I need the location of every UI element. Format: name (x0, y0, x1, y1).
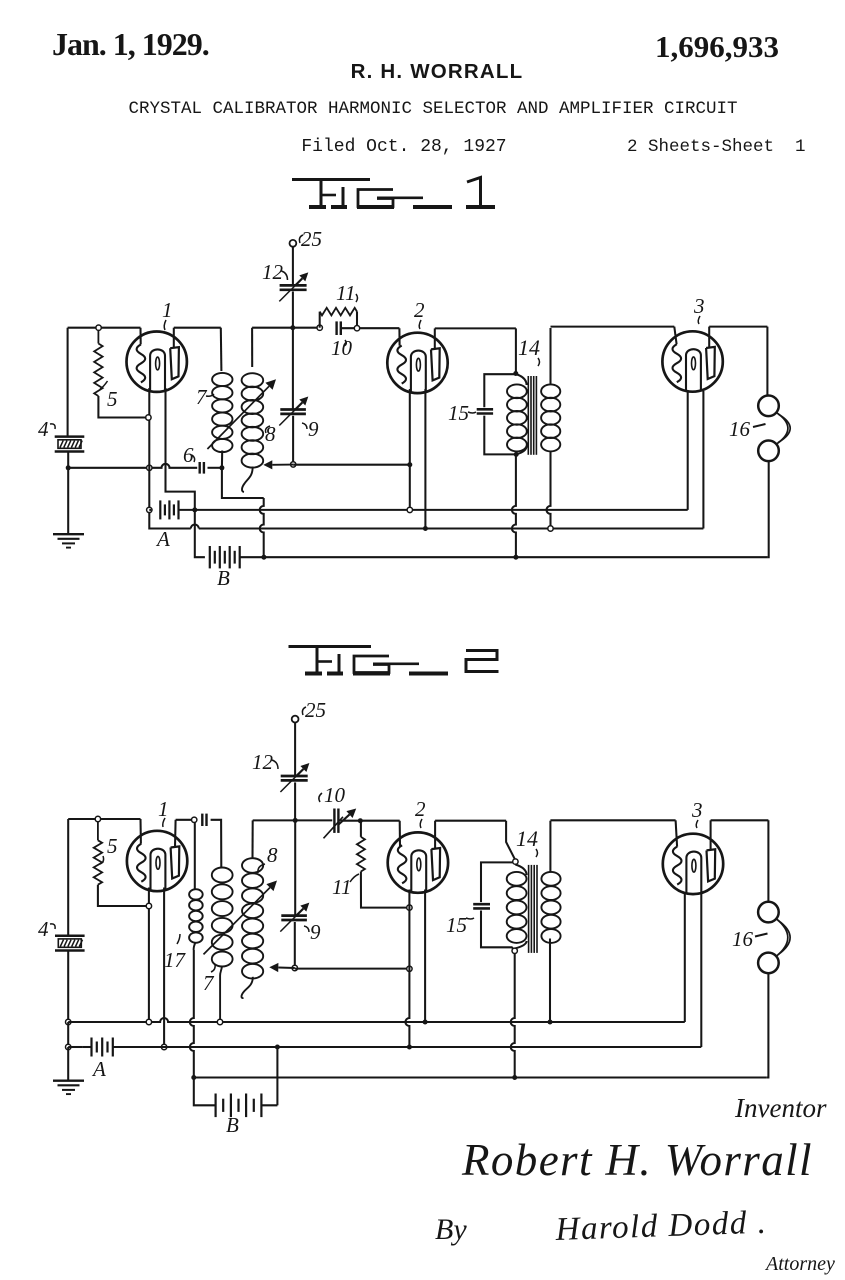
wire: top bus segment F Fig.1 (709, 326, 767, 328)
transformer 14 core Fig.1 (528, 376, 536, 455)
wire: grid lead tube 2 Fig.1 (398, 328, 400, 345)
label 14 Fig.1 (518, 335, 540, 366)
wire: right rail to phones Fig.2 (767, 820, 769, 901)
junction (open) battery A left Fig.1 (147, 507, 152, 512)
wire: tube 2 filament left leg Fig.1 (407, 389, 412, 507)
junction dot primary-drop / railR Fig.2 (512, 1075, 517, 1080)
wire: tube 1 filament left leg Fig.2 (148, 888, 150, 1020)
junction dot coil17-battB / railR Fig.2 (191, 1075, 196, 1080)
wire: battery A left lead Fig.2 (68, 1046, 91, 1048)
wire: phones to B+ rail Fig.1 (767, 461, 768, 557)
svg-text:25: 25 (305, 698, 326, 722)
svg-text:By: By (435, 1213, 467, 1246)
crystal detector 4 Fig.2 (55, 936, 85, 1022)
svg-text:5: 5 (107, 834, 118, 858)
label 4 Fig.1 (38, 417, 55, 441)
label 14 Fig.2 (516, 826, 538, 857)
label 3 Fig.1 (693, 294, 705, 324)
svg-text:1: 1 (162, 298, 173, 322)
wire: top bus segment E Fig.1 (551, 326, 675, 328)
tuning arrow through coil 7 Fig.2 (204, 881, 278, 955)
crystal detector 4 Fig.1 (55, 437, 85, 468)
junction (open) tube2 left leg / rail1 Fig.1 (407, 507, 412, 512)
variable capacitor 12 Fig.2 (280, 763, 309, 820)
svg-text:11: 11 (332, 875, 351, 899)
figure title FIG.2 (289, 647, 499, 674)
wire: coil 8 top lead Fig.1 (251, 328, 253, 367)
svg-text:4: 4 (38, 417, 49, 441)
junction dot at capacitor 12 branch Fig.1 (290, 325, 295, 330)
inductor coil 17 Fig.2 (189, 889, 203, 950)
signature block: By (435, 1213, 467, 1246)
tuning arrow through coils 7-8 Fig.1 (207, 379, 276, 449)
wire: plate feed down to transformer Fig.1 (515, 328, 517, 373)
inductor coil 8 Fig.1 (242, 373, 264, 492)
wire: tube 2 filament right leg Fig.1 (424, 389, 426, 529)
wire: top bus segment A Fig.2 (68, 818, 140, 820)
wire: left rail lower Fig.2 (67, 1022, 69, 1047)
wire: primary bottom B+ drop Fig.2 (511, 954, 515, 1078)
svg-text:1: 1 (158, 797, 169, 821)
junction (open) resistor5/left-leg Fig.2 (146, 903, 151, 908)
svg-text:12: 12 (262, 260, 284, 284)
wire: grid lead tube 1 Fig.2 (139, 819, 141, 844)
coupling capacitor (tube1 plate) Fig.2 (202, 814, 206, 826)
junction dot crystal-ground Fig.1 (66, 465, 71, 470)
variable capacitor 9 Fig.1 (279, 328, 308, 465)
wire: transformer B+ drop Fig.1 (512, 456, 516, 557)
document header: sheet number (627, 137, 806, 157)
svg-text:Filed Oct. 28, 1927: Filed Oct. 28, 1927 (301, 137, 506, 157)
coil 8 tap wire with arrow Fig.2 (269, 963, 295, 972)
junction (open) left-rail/railP Fig.2 (66, 1019, 71, 1024)
variable capacitor 9 Fig.2 (280, 820, 309, 968)
wire: top bus segment E Fig.2 (550, 819, 675, 821)
junction (open) tap corner Fig.2 (292, 965, 297, 970)
terminal 25 Fig.1 (290, 240, 297, 247)
junction dot tube2 right leg / rail2 Fig.1 (423, 526, 428, 531)
junction (open) resistor 5 top Fig.2 (95, 816, 100, 821)
svg-text:12: 12 (252, 750, 274, 774)
svg-text:17: 17 (164, 948, 187, 972)
document header: filing date (301, 137, 506, 157)
svg-text:15: 15 (448, 401, 469, 425)
wire: left rail Fig.1 (67, 328, 69, 437)
svg-text:B: B (217, 566, 230, 590)
label 7 Fig.2 (203, 964, 215, 995)
svg-text:A: A (155, 527, 170, 551)
wire: top bus segment A Fig.1 (68, 327, 141, 329)
junction (open) tube1 left leg / railP Fig.2 (146, 1019, 151, 1024)
resistor 11 Fig.2 (357, 821, 407, 908)
junction dot battery B right / railQ Fig.2 (275, 1045, 280, 1050)
headphones 16 Fig.1 (758, 396, 790, 462)
label A Fig.2 (91, 1057, 106, 1081)
junction (open) resistor 5 bottom Fig.1 (146, 415, 151, 420)
wire: top bus segment B Fig.1 (174, 327, 221, 329)
wire: grid return Fig.1 (68, 464, 197, 468)
junction (open) resistor 11 right Fig.1 (354, 326, 359, 331)
svg-text:2: 2 (415, 797, 426, 821)
svg-text:14: 14 (518, 335, 540, 360)
wire: grid lead tube 3 Fig.1 (674, 327, 676, 345)
label 5 Fig.1 (100, 381, 118, 411)
wire: plate lead tube 2 Fig.1 (434, 328, 436, 348)
figure title FIG.1 (292, 178, 495, 208)
battery A Fig.2 (92, 1038, 113, 1057)
wire: coil 17 bottom to battery B Fig.2 (190, 950, 194, 1078)
label 10 Fig.2 (319, 783, 346, 807)
wire: plate lead tube 3 Fig.2 (710, 820, 712, 849)
label 1 Fig.2 (158, 797, 169, 827)
wire: ground lead Fig.1 (67, 468, 69, 534)
inductor coil 7 Fig.1 (212, 373, 232, 468)
vacuum tube 2 Fig.1 (387, 333, 447, 393)
label 11 Fig.1 (336, 281, 358, 305)
inductor coil 7 Fig.2 (212, 868, 233, 1020)
junction (open) transformer primary bottom Fig.2 (512, 948, 517, 953)
wire: grid lead tube 1 Fig.1 (139, 328, 141, 345)
vacuum tube 2 Fig.2 (388, 832, 448, 892)
label 7 Fig.1 (196, 385, 214, 409)
variable capacitor 10 Fig.2 (324, 809, 357, 839)
wire: battery B left lead Fig.2 (194, 1078, 216, 1106)
wire: tube 2 filament left leg Fig.2 (405, 890, 409, 1048)
battery B Fig.2 (216, 1094, 262, 1118)
label A Fig.1 (155, 527, 170, 551)
junction (open) transformer primary top Fig.2 (513, 859, 518, 864)
svg-text:9: 9 (308, 417, 319, 441)
junction dot transformer primary top Fig.1 (513, 371, 518, 376)
svg-text:1,696,933: 1,696,933 (655, 29, 779, 64)
svg-text:16: 16 (732, 927, 754, 951)
junction dot resistor 11 top Fig.2 (358, 818, 363, 823)
capacitor 15 Fig.1 (477, 374, 517, 454)
svg-text:Robert H. Worrall: Robert H. Worrall (461, 1135, 813, 1185)
label 6 Fig.1 (183, 443, 195, 467)
junction dot battery A right Fig.1 (192, 507, 197, 512)
svg-text:A: A (91, 1057, 106, 1081)
junction (open) left-rail/railQ Fig.2 (66, 1044, 71, 1049)
document header: title (128, 99, 737, 119)
svg-text:Harold Dodd .: Harold Dodd . (554, 1205, 768, 1248)
svg-text:CRYSTAL CALIBRATOR HARMONIC SE: CRYSTAL CALIBRATOR HARMONIC SELECTOR AND… (128, 99, 737, 119)
wire: plate lead tube 1 Fig.2 (174, 820, 177, 848)
wire: battery B left lead Fig.1 (195, 510, 205, 557)
transformer 14 core Fig.2 (529, 865, 537, 953)
vacuum tube 3 Fig.2 (663, 834, 723, 894)
wire: rail 1 (A+) Fig.1 (195, 391, 688, 510)
terminal 25 Fig.2 (292, 716, 299, 723)
wire: coil 8 top lead Fig.2 (251, 820, 253, 858)
wire: coil 17 top lead Fig.2 (194, 823, 196, 890)
wire: plate lead tube 3 Fig.1 (708, 327, 710, 348)
wire: tap to tube 2 filament Fig.1 (293, 464, 410, 466)
variable capacitor 12 Fig.1 (279, 272, 308, 327)
svg-text:Jan. 1, 1929.: Jan. 1, 1929. (52, 26, 209, 62)
document header: inventor name (351, 60, 524, 83)
terminal 25 lead Fig.1 (292, 246, 294, 284)
junction dot transformer primary bottom Fig.1 (514, 452, 519, 457)
capacitor 6 Fig.1 (200, 462, 204, 474)
svg-text:3: 3 (691, 798, 703, 822)
document header: date (52, 26, 209, 62)
wire: battery B right riser Fig.2 (261, 1047, 277, 1105)
wire: phones to rail R Fig.2 (767, 973, 769, 1077)
resistor 5 Fig.1 (94, 330, 147, 417)
label 16 Fig.2 (732, 927, 768, 951)
label 9 Fig.1 (302, 417, 319, 441)
junction (open) plate/coil17 Fig.2 (192, 817, 197, 822)
vacuum tube 1 Fig.2 (127, 831, 187, 891)
wire: rail 3 (B+) Fig.1 (264, 556, 768, 558)
svg-text:16: 16 (729, 417, 751, 441)
terminal 25 lead Fig.2 (294, 722, 296, 775)
inductor coil 8 Fig.2 (241, 858, 263, 998)
junction (open) tube1 right leg / railQ Fig.2 (161, 1044, 166, 1049)
wire: tube 1 filament right leg Fig.2 (163, 888, 165, 1045)
svg-text:R. H. WORRALL: R. H. WORRALL (351, 60, 524, 83)
signature block: Inventor (734, 1093, 827, 1123)
wire: rail 2 (A-) Fig.1 (149, 391, 703, 529)
svg-text:8: 8 (265, 422, 276, 446)
document header: patent number (655, 29, 779, 64)
wire: grid lead tube 2 Fig.2 (399, 821, 401, 847)
junction (open) tap corner Fig.1 (291, 462, 296, 467)
ground Fig.1 (53, 534, 84, 547)
transformer 14 secondary Fig.2 (541, 821, 560, 1022)
wire: top bus segment C Fig.2 (253, 819, 400, 821)
label 2 Fig.2 (415, 797, 426, 828)
label 9 Fig.2 (304, 920, 321, 944)
wire: rail Q Fig.2 (113, 894, 702, 1047)
signature block: attorney signature (554, 1205, 768, 1248)
wire: top bus segment F Fig.2 (711, 819, 769, 821)
wire: plate feed to transformer Fig.2 (506, 821, 514, 859)
label 16 Fig.1 (729, 417, 766, 441)
label B Fig.1 (217, 566, 230, 590)
vacuum tube 3 Fig.1 (662, 331, 722, 391)
junction dot tube2 left leg / railQ Fig.2 (407, 1045, 412, 1050)
svg-text:15: 15 (446, 913, 467, 937)
svg-text:14: 14 (516, 826, 538, 851)
svg-text:3: 3 (693, 294, 705, 318)
signature block: inventor name (461, 1135, 813, 1185)
battery B Fig.1 (210, 546, 240, 568)
wire: coil 7 top lead Fig.1 (220, 328, 223, 371)
resistor 5 Fig.2 (94, 822, 147, 906)
junction dot battery B right Fig.1 (261, 555, 266, 560)
wire: top bus segment D Fig.1 (435, 327, 516, 329)
label 11 Fig.2 (332, 874, 359, 899)
ground Fig.2 (53, 1081, 84, 1094)
svg-text:8: 8 (267, 843, 278, 867)
wire: battery A right lead Fig.1 (179, 509, 195, 511)
svg-text:Attorney: Attorney (764, 1253, 835, 1275)
junction dot tube2 right leg / railP Fig.2 (423, 1020, 428, 1025)
junction (open) resistor 11 bottom Fig.2 (407, 905, 412, 910)
junction (open) resistor 11 left Fig.1 (317, 325, 322, 330)
label 15 Fig.1 (448, 401, 476, 425)
wire: right rail to phones Fig.1 (766, 327, 768, 396)
wire: ground lead Fig.2 (67, 1047, 69, 1081)
wire: tube 2 filament right leg Fig.2 (424, 890, 426, 1023)
svg-text:9: 9 (310, 920, 321, 944)
label 3 Fig.2 (691, 798, 703, 828)
wire: cap 6 to coil 7 bottom Fig.1 (208, 467, 222, 469)
junction (open) filament-left / grid-return Fig.1 (147, 465, 152, 470)
junction dot coil 7 bottom Fig.1 (219, 465, 224, 470)
svg-text:4: 4 (38, 917, 49, 941)
label 1 Fig.1 (162, 298, 173, 330)
headphones 16 Fig.2 (758, 902, 790, 973)
label 12 Fig.1 (262, 260, 288, 284)
transformer 14 primary Fig.2 (507, 865, 527, 949)
label 15 Fig.2 (446, 913, 474, 937)
svg-text:B: B (226, 1113, 239, 1137)
label B Fig.2 (226, 1113, 239, 1137)
wire: rail P Fig.2 (68, 893, 685, 1022)
label 5 Fig.2 (100, 834, 118, 864)
transformer 14 primary Fig.1 (507, 374, 527, 454)
label 12 Fig.2 (252, 750, 278, 774)
coil 8 tap wire with arrow Fig.1 (263, 460, 293, 469)
label 17 Fig.2 (164, 934, 187, 972)
wire: tube 1 filament left leg Fig.1 (148, 388, 150, 510)
svg-text:7: 7 (196, 385, 208, 409)
label 2 Fig.1 (414, 298, 425, 329)
svg-text:10: 10 (324, 783, 346, 807)
label 25 Fig.1 (299, 227, 322, 251)
svg-text:11: 11 (336, 281, 355, 305)
wire: plate lead tube 2 Fig.2 (434, 821, 436, 849)
svg-text:10: 10 (331, 336, 353, 360)
wire: plate lead tube 1 Fig.1 (173, 328, 175, 348)
label 4 Fig.2 (38, 917, 55, 941)
wire: top bus segment C Fig.1 (252, 327, 399, 330)
capacitor 10 Fig.1 (337, 321, 341, 335)
wire: tube 1 filament right leg Fig.1 (166, 388, 195, 510)
junction dot capacitor 12 branch Fig.2 (293, 818, 298, 823)
junction (open) transformer secondary bottom / rail2 Fig.1 (548, 526, 553, 531)
svg-text:2: 2 (414, 298, 425, 322)
label 25 Fig.2 (302, 698, 326, 722)
vacuum tube 1 Fig.1 (127, 332, 187, 392)
svg-text:Inventor: Inventor (734, 1093, 827, 1123)
wire: tap to tube 2 filament Fig.2 (295, 968, 410, 970)
junction dot transformer secondary bottom / railP Fig.2 (548, 1020, 553, 1025)
svg-text:2 Sheets-Sheet 1: 2 Sheets-Sheet 1 (627, 137, 806, 157)
wire: battery B right lead Fig.1 (240, 556, 264, 558)
battery A Fig.1 (160, 500, 178, 519)
signature block: Attorney (764, 1253, 835, 1275)
svg-text:5: 5 (107, 387, 118, 411)
svg-text:7: 7 (203, 971, 215, 995)
junction (open) grid-return/tube2 leg Fig.2 (407, 966, 412, 971)
junction (open) resistor 5 top Fig.1 (96, 325, 101, 330)
label 8 Fig.1 (265, 422, 276, 446)
capacitor 15 Fig.2 (473, 862, 514, 949)
wire: rail R Fig.2 (194, 1076, 767, 1078)
label 8 Fig.2 (258, 843, 278, 873)
wire: B+ feed from coil 7 Fig.1 (222, 468, 264, 557)
resistor 11 Fig.1 (320, 308, 357, 328)
label 10 Fig.1 (331, 336, 353, 360)
wire: plate to coupling cap Fig.2 (176, 819, 195, 821)
wire: grid lead tube 3 Fig.2 (676, 820, 678, 846)
wire: battery A left lead Fig.1 (149, 509, 151, 511)
junction dot transformer/rail3 Fig.1 (513, 555, 518, 560)
svg-text:25: 25 (301, 227, 322, 251)
junction (open) coil 7 bottom / railP Fig.2 (217, 1019, 222, 1024)
wire: top bus segment D Fig.2 (435, 820, 506, 822)
wire: cap to coil 7 top Fig.2 (211, 820, 222, 868)
transformer 14 secondary Fig.1 (541, 328, 560, 529)
wire: left rail Fig.2 (67, 819, 69, 936)
